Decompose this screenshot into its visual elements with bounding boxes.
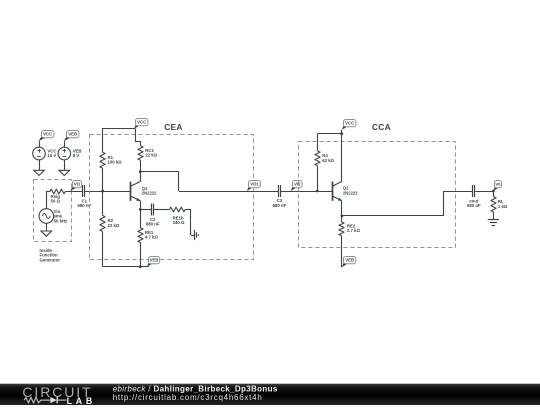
svg-text:680 nF: 680 nF [146, 222, 160, 227]
svg-text:62 kΩ: 62 kΩ [322, 158, 334, 163]
svg-text:CCA: CCA [372, 122, 391, 132]
svg-text:680 nF: 680 nF [273, 203, 287, 208]
svg-text:22 kΩ: 22 kΩ [145, 153, 157, 158]
svg-text:50 kHz: 50 kHz [54, 218, 68, 223]
svg-text:CEA: CEA [164, 122, 183, 132]
svg-text:10 V: 10 V [47, 153, 56, 158]
svg-text:VEB: VEB [68, 132, 77, 137]
svg-text:4.7 kΩ: 4.7 kΩ [145, 235, 159, 240]
svg-text:1 kΩ: 1 kΩ [498, 204, 508, 209]
svg-text:680 nF: 680 nF [467, 203, 481, 208]
svg-text:vo: vo [495, 182, 500, 187]
svg-text:8 V: 8 V [73, 153, 80, 158]
svg-text:VCC: VCC [43, 132, 52, 137]
svg-text:VI2: VI2 [294, 182, 301, 187]
svg-text:50 Ω: 50 Ω [51, 199, 61, 204]
svg-text:2.7 kΩ: 2.7 kΩ [347, 228, 361, 233]
svg-text:LAB: LAB [67, 396, 96, 405]
svg-text:Generator: Generator [40, 257, 61, 262]
svg-text:VEB: VEB [150, 258, 159, 263]
svg-text:VI1: VI1 [74, 182, 81, 187]
svg-text:VCC: VCC [137, 120, 146, 125]
svg-text:100 kΩ: 100 kΩ [108, 160, 123, 165]
svg-text:240 Ω: 240 Ω [173, 220, 185, 225]
svg-text:2N2222: 2N2222 [142, 191, 157, 196]
svg-text:22 kΩ: 22 kΩ [108, 223, 120, 228]
svg-text:2N2222: 2N2222 [343, 190, 358, 195]
svg-text:VEB: VEB [345, 258, 354, 263]
svg-text:VCC: VCC [345, 121, 354, 126]
svg-text:http://circuitlab.com/c3rcq4h6: http://circuitlab.com/c3rcq4h66xt4h [113, 393, 263, 402]
svg-text:VO1: VO1 [250, 182, 259, 187]
